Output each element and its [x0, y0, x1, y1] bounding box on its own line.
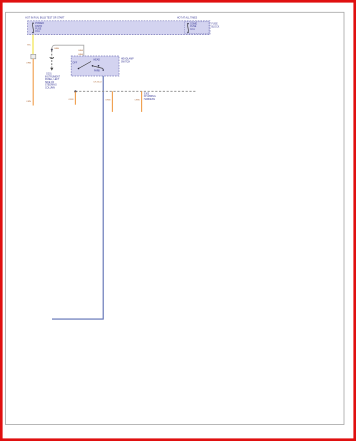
svg-text:HEAD: HEAD [94, 59, 101, 62]
svg-text:15 A: 15 A [35, 30, 40, 33]
splice node S [74, 90, 76, 92]
svg-text:FUSE: FUSE [212, 24, 219, 26]
svg-text:ORN: ORN [105, 99, 110, 101]
svg-text:ORN: ORN [26, 101, 31, 103]
wire dk blu headlamp switch to BCM [52, 76, 103, 319]
svg-text:ORN: ORN [135, 99, 140, 101]
svg-text:ORN: ORN [26, 63, 31, 65]
svg-text:HARNESS: HARNESS [144, 98, 156, 101]
svg-text:S303: S303 [144, 93, 150, 95]
svg-text:INSTRUMENT: INSTRUMENT [45, 76, 61, 78]
svg-text:I/P WIRING: I/P WIRING [144, 96, 156, 98]
svg-text:PARK: PARK [94, 70, 101, 73]
svg-text:DK BLU: DK BLU [94, 82, 102, 84]
wire black dashed to ground G201 [51, 51, 53, 68]
svg-text:GRA: GRA [78, 49, 83, 52]
svg-text:COLUMN: COLUMN [45, 88, 55, 90]
wire orange drop to cargo lamp [74, 92, 76, 105]
svg-text:ORN: ORN [68, 99, 73, 101]
node gray headlamp feed [51, 49, 53, 51]
svg-text:HOT IN RUN, BULB TEST OR START: HOT IN RUN, BULB TEST OR START [25, 17, 65, 20]
headlamp switch S1 [71, 56, 119, 76]
svg-text:OFF: OFF [73, 62, 78, 64]
wire yellow fuse F1 down [32, 35, 34, 55]
svg-text:PANEL, LEFT: PANEL, LEFT [45, 78, 60, 81]
svg-text:10 A: 10 A [190, 28, 195, 31]
fuse F1 [32, 23, 44, 34]
connector C200 [31, 54, 36, 59]
wire orange drop to left IP lamp [111, 91, 113, 112]
wire gray to headlamp switch [52, 45, 84, 56]
svg-text:HEADLAMP: HEADLAMP [121, 58, 134, 61]
svg-text:G201: G201 [46, 74, 52, 76]
fuse block band [28, 21, 210, 35]
dashed continuation line y91 [75, 90, 196, 92]
svg-text:GRA: GRA [78, 53, 83, 56]
wire orange drop to right IP lamp [141, 91, 143, 112]
svg-text:GRA: GRA [54, 47, 59, 50]
svg-text:BLOCK: BLOCK [212, 26, 220, 28]
fuse F2 dome [185, 22, 210, 34]
svg-text:SWITCH: SWITCH [121, 61, 130, 63]
svg-text:HOT AT ALL TIMES: HOT AT ALL TIMES [177, 17, 198, 20]
ground G201 [45, 68, 61, 90]
svg-text:STEERING: STEERING [45, 85, 57, 87]
wire orange to garage switch [32, 59, 34, 106]
svg-text:SIDE OF: SIDE OF [45, 82, 55, 84]
